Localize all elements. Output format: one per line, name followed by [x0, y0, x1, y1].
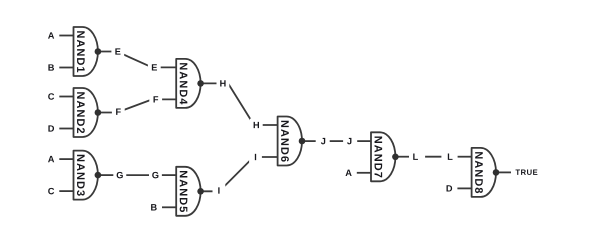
NAND6 output bubble (inversion dot): [299, 138, 306, 145]
net label G at NAND3 output: [113, 169, 126, 182]
wire J: NAND6 output to NAND7 input: [302, 140, 316, 142]
net label H at NAND4 output: [217, 77, 230, 90]
NAND3 output bubble (inversion dot): [95, 172, 102, 179]
wire H: NAND4 output to NAND6 input: [201, 83, 279, 125]
net label J at NAND6 output: [317, 135, 330, 148]
NAND gate NAND8 body: [472, 148, 496, 197]
wire G: NAND3 output to NAND5 input: [98, 174, 114, 176]
wire input C stub to NAND3: [59, 190, 74, 192]
wire input D stub to NAND8: [457, 187, 472, 189]
net label I at NAND5 output: [213, 184, 226, 197]
net label G at NAND5 input: [149, 169, 162, 182]
wire L: NAND7 output to NAND8 input: [395, 156, 410, 158]
net label I at NAND6 input: [249, 151, 262, 164]
input label A for NAND3: [45, 153, 58, 166]
NAND gate NAND5 body: [176, 167, 200, 216]
input label B for NAND5: [147, 201, 160, 214]
net label F at NAND4 input: [149, 93, 162, 106]
net label J at NAND7 input: [343, 135, 356, 148]
net label F at NAND2 output: [112, 105, 125, 118]
wire input A stub to NAND1: [59, 35, 74, 37]
net label L at NAND8 input: [444, 150, 457, 163]
wire E: NAND1 output to NAND4 input: [98, 52, 177, 68]
NAND gate NAND7 body: [371, 132, 395, 181]
NAND8 output bubble (inversion dot): [493, 169, 500, 176]
NAND7 output bubble (inversion dot): [392, 154, 399, 161]
input label C for NAND3: [45, 185, 58, 198]
wire input D stub to NAND2: [59, 128, 74, 130]
wire input C stub to NAND2: [59, 96, 74, 98]
NAND gate NAND3 body: [74, 151, 98, 200]
wire I: NAND5 output to NAND6 input: [201, 157, 279, 191]
net label H at NAND6 input: [250, 119, 263, 132]
net label E at NAND1 output: [111, 45, 124, 58]
wire input A stub to NAND7: [357, 172, 372, 174]
NAND gate NAND6 body: [278, 117, 302, 166]
NAND1 output bubble (inversion dot): [95, 48, 102, 55]
wire F: NAND2 output to NAND4 input: [98, 99, 177, 112]
wire input B stub to NAND5: [162, 206, 177, 208]
NAND gate NAND1 body: [74, 27, 98, 76]
input label A for NAND7: [342, 166, 355, 179]
NAND4 output bubble (inversion dot): [197, 80, 204, 87]
input label A for NAND1: [45, 29, 58, 42]
input label D for NAND8: [443, 182, 456, 195]
NAND5 output bubble (inversion dot): [197, 188, 204, 195]
input label C for NAND2: [45, 90, 58, 103]
NAND2 output bubble (inversion dot): [95, 109, 102, 116]
net label L at NAND7 output: [409, 150, 422, 163]
NAND gate NAND4 body: [176, 59, 200, 108]
input label D for NAND2: [45, 122, 58, 135]
net label E at NAND4 input: [148, 61, 161, 74]
NAND gate NAND2 body: [74, 88, 98, 137]
input label B for NAND1: [45, 61, 58, 74]
wire input A stub to NAND3: [59, 158, 74, 160]
wire input B stub to NAND1: [59, 67, 74, 69]
wire TRUE: NAND8 output: [496, 171, 511, 173]
output label TRUE: [515, 170, 537, 175]
